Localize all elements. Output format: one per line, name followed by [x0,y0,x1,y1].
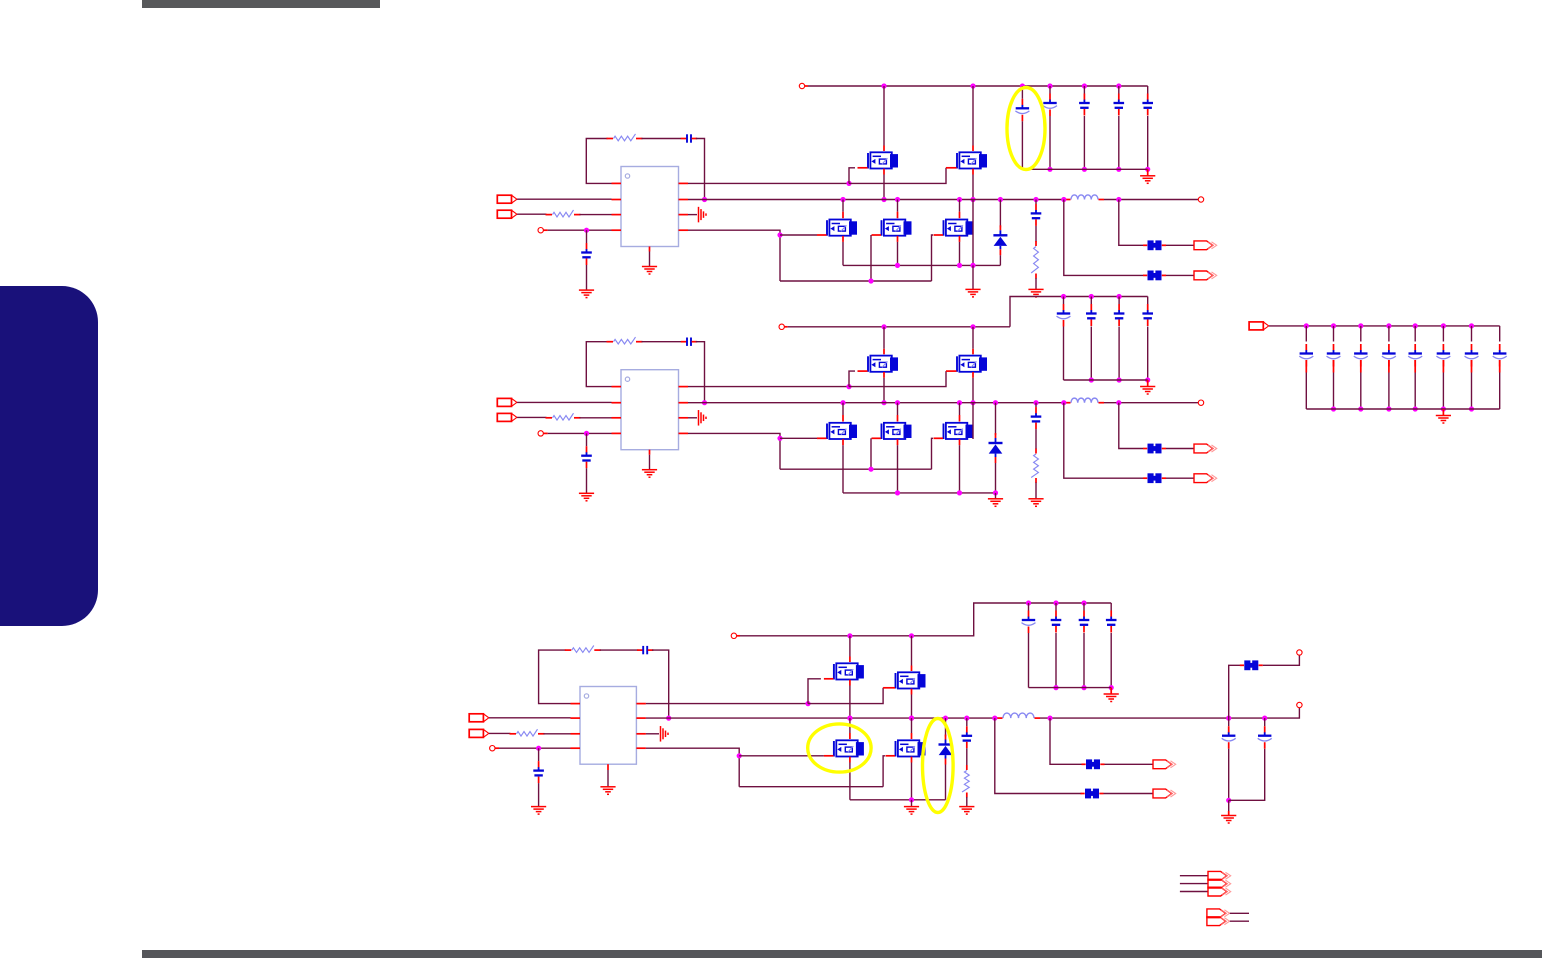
junction [1226,716,1231,721]
capacitor C3O2 [1258,726,1272,749]
terminal 3 [490,746,495,751]
junction [957,490,962,495]
junction [957,400,962,405]
port input 1A [497,195,517,203]
junction [1081,685,1086,690]
signal ground [699,207,707,223]
ground [988,499,1003,507]
wire [1230,920,1249,922]
junction bank bus [1331,406,1336,411]
wire source bus 3 [850,799,946,801]
wire [607,770,609,787]
U2 left pin [612,417,622,419]
junction rail [847,633,852,638]
wire bank rail [1306,325,1499,327]
junction feedback [666,716,671,721]
junction phase [881,400,886,405]
junction bank bus [1469,406,1474,411]
wire [870,235,872,281]
U3 right pin [636,747,646,749]
inductor L2 [1066,398,1105,403]
junction feedback/output [702,197,707,202]
junction phase [909,716,914,721]
junction cap bank [1026,600,1031,605]
junction phase [970,197,975,202]
wire [517,416,546,418]
capacitor bank C3B3 [1079,611,1090,633]
capacitor C3O1 [1222,726,1236,749]
ferrite bead FB4 [1143,473,1166,483]
wire [1064,403,1143,479]
junction [847,716,852,721]
capacitor bank CB1 [1299,344,1313,367]
wire [932,235,934,281]
junction [777,436,782,441]
wire [1263,655,1300,665]
wire [808,688,883,704]
highlight ellipse on C1B1 [1007,88,1045,170]
wire output bus [688,199,1066,201]
capacitor bank C3B1 [1022,611,1036,634]
wire cap bank bus [1022,168,1147,170]
junction cap bank [1081,600,1086,605]
wire output bus 3 right [1040,708,1299,719]
wire [1269,325,1306,327]
port output 2A [1194,444,1217,453]
U1 right pin [679,214,689,216]
wire [1119,200,1143,246]
U3 left pin [571,733,581,735]
junction [909,716,914,721]
wire [883,378,885,403]
wire [966,797,968,806]
wire [972,265,974,289]
wire [1147,116,1149,169]
junction [1053,685,1058,690]
U1 right pin [679,199,689,201]
wire [959,403,961,415]
transistor Q14 low-side [882,220,912,236]
port stack B2 [1207,917,1230,926]
wire [972,327,974,349]
wire [911,718,913,733]
wire gate bus 3 [739,786,883,788]
wire [642,341,682,343]
junction rail [881,83,886,88]
ferrite bead FB1 [1143,240,1166,250]
diode D1 [993,225,1007,255]
capacitor bank C2B3 [1114,304,1125,326]
junction cap bank [1082,83,1087,88]
port input 2A [497,398,517,406]
junction phase [847,716,852,721]
junction [895,263,900,268]
wire output bus 3 [646,717,998,719]
wire [538,748,540,761]
junction cap bank [1047,83,1052,88]
wire [999,200,1001,228]
junction cap bank bus [1089,377,1094,382]
wire [517,401,611,403]
capacitor bank CB4 [1382,344,1396,367]
wire [945,718,947,736]
wire gate lower 3 [646,748,739,787]
U2 right pin [679,417,689,419]
wire [1499,326,1501,342]
wire [696,139,705,200]
junction [1047,716,1052,721]
junction bank rail [1469,323,1474,328]
resistor R33 [962,765,969,798]
wire [1083,86,1085,94]
capacitor bank CB7 [1465,344,1479,367]
junction bank rail [1441,323,1446,328]
junction [998,197,1003,202]
wire gate drive upper [688,386,849,388]
transistor Q23 low-side [827,423,857,439]
U3 left pin [571,747,581,749]
junction [1033,400,1038,405]
wire [849,371,946,387]
wire [959,445,961,493]
inductor L3 [998,713,1041,718]
capacitor C2F [1031,407,1042,429]
wire [1118,297,1120,305]
junction cap bank bus [1082,167,1087,172]
junction [737,753,742,758]
wire [586,433,588,446]
U1 left pin [612,229,622,231]
junction cap bank [1053,600,1058,605]
junction [970,263,975,268]
capacitor bank C1B4 [1114,94,1125,116]
wire [911,695,913,719]
wire [995,463,997,493]
wire [1388,326,1390,342]
junction bank rail [1386,323,1391,328]
wire [580,214,612,216]
junction cap bank bus [1116,167,1121,172]
ground at U1 [642,267,657,275]
wire [1119,403,1143,449]
wire [959,242,961,266]
port output 2B [1194,474,1217,483]
capacitor bank C2B2 [1086,304,1097,326]
wire [966,718,968,726]
junction phase [970,400,975,405]
ground bank [1436,416,1451,424]
U1 left pin [612,199,622,201]
U2 right pin [679,386,689,388]
port stack B1 [1207,909,1230,918]
wire [870,438,872,469]
junction bank bus [1358,406,1363,411]
wire [849,636,851,657]
wire [642,138,682,140]
wire [1083,633,1085,688]
wire [1090,327,1092,381]
port stack A1 [1208,871,1231,880]
wire [1118,116,1120,169]
junction [909,797,914,802]
junction [584,431,589,436]
capacitor bank C3B4 [1106,611,1117,633]
wire [1229,665,1240,718]
wire [1028,633,1030,688]
junction rail [881,324,886,329]
port input 3A [469,714,489,722]
wire [842,200,844,212]
transistor Q15 low-side [944,220,974,236]
wire [1118,327,1120,381]
wire rail riser [1010,297,1148,327]
ground [579,290,594,298]
terminal 2 [538,431,543,436]
wire [688,214,697,216]
U1 right pin [679,229,689,231]
junction bank bus [1441,406,1446,411]
U1 right pin [679,182,689,184]
wire [972,175,974,200]
ground at U3 [600,787,615,795]
wire [1230,912,1249,914]
ground cap bank 3 [1104,694,1119,702]
wire [1064,200,1143,276]
ferrite bead FB2 [1143,271,1166,281]
wire [1166,448,1194,450]
inductor L1 [1066,195,1105,200]
diode D2 [989,433,1003,463]
wire [897,403,899,415]
wire [688,417,697,419]
transistor Q24 low-side [882,423,912,439]
wire [1442,326,1444,342]
junction [943,716,948,721]
ground cap bank [1140,176,1155,184]
wire gate drive lower [688,433,780,469]
transistor Q22 high-side [957,356,987,372]
resistor R23 [1031,449,1038,484]
junction [895,197,900,202]
wire gate drive lower [688,230,780,281]
wire [842,445,844,493]
wire [1166,244,1194,246]
wire [849,371,855,387]
junction [1033,197,1038,202]
transistor Q21 high-side [868,356,898,372]
wire [1118,86,1120,94]
junction bank rail [1331,323,1336,328]
capacitor bank C1B1 [1015,99,1029,122]
U3 left pin [571,717,581,719]
junction bank bus [1386,406,1391,411]
regulator IC U3 [580,687,636,765]
capacitor bank C1B2 [1043,94,1057,117]
wire [1055,603,1057,611]
wire [1021,121,1023,169]
left navy side tab [0,286,98,626]
top header bar [142,0,380,8]
junction [1061,197,1066,202]
terminal rail 3 [731,633,736,638]
wire cap bank bus [1064,379,1148,381]
wire [1110,603,1112,611]
wire [999,255,1001,265]
wire [538,783,540,806]
wire [696,342,705,403]
wire [849,686,851,719]
wire [548,229,612,231]
wire source bus [843,264,1000,266]
wire [649,455,651,470]
transistor Q13 low-side [827,220,857,236]
capacitor bank CB8 [1493,344,1507,367]
junction [777,232,782,237]
wire [1147,327,1149,381]
port output 1B [1194,271,1217,280]
wire [544,733,571,735]
wire feedback [539,650,571,704]
U2 left pin [612,432,622,434]
capacitor C1F [1031,204,1042,226]
port output 3B [1153,789,1176,798]
transistor Q34 low-side [896,740,926,756]
wire [995,403,997,435]
wire [849,763,851,800]
port stack A2 [1208,879,1231,888]
port stack A3 [1208,887,1231,896]
junction rail [970,324,975,329]
wire [1471,373,1473,410]
U3 right pin [636,717,646,719]
wire [1360,326,1362,342]
wire output bus [688,402,1066,404]
highlight ellipse on D3 [923,719,954,813]
highlight ellipse on Q33 [808,724,871,772]
wire [1105,763,1154,765]
wire [586,265,588,290]
wire [1360,373,1362,410]
wire [849,168,855,184]
wire [1471,326,1473,342]
transistor Q31 high-side [834,663,864,679]
wire gate bus [780,468,932,470]
U3 left pin [571,703,581,705]
U1 left pin [612,214,622,216]
wire source bus [843,492,996,494]
wire [1264,718,1266,726]
wire [883,175,885,200]
wire [1021,86,1023,99]
U2 left pin [612,402,622,404]
wire [1499,373,1501,410]
junction cap bank [1089,294,1094,299]
wire gate bus [780,280,932,282]
wire [1147,86,1149,94]
wire [849,718,851,733]
U3 right pin [636,733,646,735]
wire [586,230,588,243]
wire [1035,483,1037,499]
wire [1110,633,1112,688]
capacitor bank C3B2 [1051,611,1062,633]
wire [883,327,885,349]
terminal output 2 [1198,400,1203,405]
wire [1035,429,1037,449]
ground [1028,289,1043,297]
wire [499,747,571,749]
terminal rail 2 [779,324,784,329]
junction [1262,716,1267,721]
junction [846,384,851,389]
wire [1049,86,1051,94]
wire [1229,749,1265,801]
U2 right pin [679,402,689,404]
capacitor C3F [962,726,973,748]
wire [1147,297,1149,305]
junction bank rail [1413,323,1418,328]
wire feedback [586,342,611,387]
junction cap bank bus [1047,167,1052,172]
capacitor bank CB5 [1408,344,1422,367]
terminal output 1 [1198,197,1203,202]
wire [808,679,821,704]
wire [1090,297,1092,305]
junction [840,400,845,405]
capacitor bank C1B5 [1142,94,1153,116]
wire [517,213,546,215]
capacitor C32 [533,761,544,783]
wire [1050,718,1083,764]
capacitor C31 [637,646,653,654]
wire [1035,403,1037,408]
capacitor C21 [681,338,697,346]
junction cap bank bus [1145,377,1150,382]
junction [957,263,962,268]
transistor Q11 high-side [868,152,898,168]
junction cap bank [1020,83,1025,88]
wire [1104,199,1198,201]
wire [842,242,844,266]
wire [1063,297,1065,305]
wire [1388,373,1390,410]
capacitor bank C2B4 [1142,304,1153,326]
wire [1083,116,1085,169]
wire [972,200,974,266]
wire [911,636,913,666]
junction cap bank [1116,83,1121,88]
wire [1333,373,1335,410]
wire [1035,278,1037,289]
wire [1166,274,1194,276]
wire [580,417,612,419]
wire [972,403,974,439]
terminal output 3C [1297,650,1302,655]
wire [1414,373,1416,410]
junction [993,400,998,405]
ground [1028,499,1043,507]
port input 3B [469,729,489,737]
wire [652,650,669,718]
port input 1B [497,210,517,218]
wire [780,234,817,236]
transistor Q25 low-side [944,423,974,439]
wire gate upper 3 [646,703,808,705]
wire [959,200,961,212]
wire input rail 3 [740,603,1111,636]
wire [995,493,997,499]
wire feedback [586,139,611,184]
